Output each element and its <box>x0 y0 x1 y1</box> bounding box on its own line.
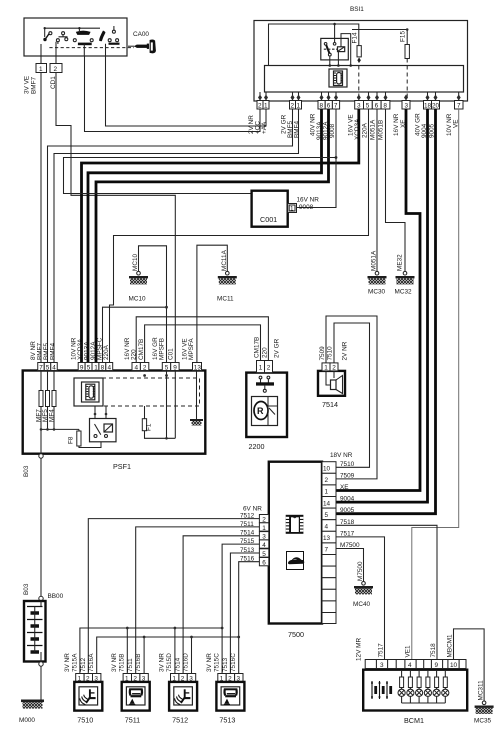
svg-text:ME32: ME32 <box>397 254 404 271</box>
connector C001 <box>252 191 320 227</box>
handbrake switch 2200 <box>246 373 287 451</box>
BCM1 internal battery symbol <box>371 681 391 699</box>
PSF1 fuse F8 <box>68 429 102 447</box>
svg-text:2: 2 <box>267 365 271 372</box>
wire MPSFB from PSF1 pin5 to ground MC10 <box>139 246 167 363</box>
svg-text:9005: 9005 <box>340 507 355 514</box>
svg-text:7510: 7510 <box>340 461 355 468</box>
svg-text:2: 2 <box>143 364 147 371</box>
wire BMF5 from BSI1 to PSF1 pin5 <box>48 109 293 363</box>
svg-text:2: 2 <box>54 66 58 73</box>
svg-text:MPSFB: MPSFB <box>159 338 166 360</box>
svg-text:F8: F8 <box>68 436 75 444</box>
wire BMF4 from BSI1 to PSF1 pin4 <box>54 109 299 363</box>
BSI1 pin 2 (BMF5) pin 1 (BMF4) <box>290 101 302 110</box>
PSF1 fuse MF5 <box>42 391 50 423</box>
PSF1 fuse box <box>23 371 206 472</box>
PSF1 pin 13 <box>193 363 202 372</box>
svg-text:6: 6 <box>375 103 379 110</box>
svg-text:BCM1: BCM1 <box>404 716 424 725</box>
wire M051B from BSI1 to ground MC32 <box>386 109 406 272</box>
wire 7509 from 7514 pin1 to 7500 pin2 <box>326 316 377 479</box>
ignition switch CA00 <box>24 18 149 56</box>
svg-text:8: 8 <box>320 103 324 110</box>
svg-text:3: 3 <box>262 534 266 541</box>
svg-text:7515A: 7515A <box>71 653 78 672</box>
svg-text:1: 1 <box>259 365 263 372</box>
node B03 on PSF1 bottom <box>23 454 43 477</box>
svg-text:5: 5 <box>262 551 266 558</box>
wire 7511 from 7500 pin1 to 7511 pin2 <box>136 527 260 674</box>
svg-text:9008: 9008 <box>299 204 314 211</box>
PSF1 relay <box>90 406 117 442</box>
svg-text:12V MR: 12V MR <box>356 638 363 661</box>
svg-text:7: 7 <box>39 364 43 371</box>
BCM1 pin strip <box>365 660 466 670</box>
svg-text:7512: 7512 <box>80 657 87 672</box>
BSI1 pins 8 6 7 <box>318 101 340 110</box>
svg-text:R: R <box>257 406 264 416</box>
PSF1 labels 16V NR 220 CM17B <box>124 337 145 360</box>
svg-text:2V NR: 2V NR <box>342 341 349 360</box>
svg-text:1: 1 <box>94 364 98 371</box>
svg-text:20: 20 <box>432 103 440 110</box>
label 3V VE BMF7 <box>24 76 38 94</box>
svg-text:7512: 7512 <box>172 716 188 725</box>
svg-text:9: 9 <box>435 662 439 669</box>
ground MC30 <box>368 250 387 295</box>
svg-text:BMF7: BMF7 <box>31 77 38 94</box>
BCM1 internal fuses and lamps <box>398 671 449 703</box>
svg-text:M7500: M7500 <box>340 542 360 549</box>
svg-text:CA00: CA00 <box>133 31 149 38</box>
svg-text:9: 9 <box>173 364 177 371</box>
PSF1 internal bus under MF fuses <box>40 371 79 456</box>
svg-text:16V NR: 16V NR <box>393 113 400 136</box>
svg-text:MC30: MC30 <box>368 289 385 296</box>
wire +CC from BSI1 pin2 to CA00 <box>85 56 261 132</box>
wire 7515 from 7500 pin4 to door units pin1 bus <box>80 544 260 673</box>
wire 9005 thick from BSI1 to 7500 pin5 <box>336 109 436 514</box>
wire XCD3A thick from BSI1 to PSF1 pin9 <box>82 109 359 363</box>
svg-text:MC35: MC35 <box>474 718 491 725</box>
wire CM17B from PSF1 pin2 to 2200 pin1 <box>145 325 261 363</box>
7513 wire labels 3V NR 7515C 7513 7516C <box>206 653 237 672</box>
svg-text:18V NR: 18V NR <box>330 452 353 459</box>
BSI1 pin 3 (XE) <box>402 101 410 110</box>
BSI1 pin stubs and junction dots <box>258 92 461 101</box>
wire XE thick from BSI1 to 7500 pin1 <box>336 109 420 491</box>
svg-text:18: 18 <box>424 103 432 110</box>
door lock motor 7512 <box>169 674 197 725</box>
CA00 internal contacts <box>41 26 134 64</box>
svg-text:XE: XE <box>340 484 349 491</box>
PSF1 internal ground <box>190 371 203 426</box>
svg-text:10: 10 <box>323 466 331 473</box>
BCM1 wire labels 7517 VE1 7518 MBCM1 <box>378 634 454 658</box>
wire 7517 from 7500 pin13 to BCM1 pin3 <box>336 537 385 660</box>
relay inside BSI1 <box>321 34 351 66</box>
svg-text:C001: C001 <box>260 215 277 224</box>
wire 7516 from 7500 pin6 to door units pin3 bus <box>97 562 260 674</box>
buzzer 7514 <box>318 371 345 409</box>
ground MC35 <box>474 680 494 725</box>
wire battery to ground M000 <box>40 666 42 699</box>
BSI1 pin 7 (VE) <box>455 101 464 110</box>
svg-text:CM17B: CM17B <box>138 339 145 360</box>
svg-text:4: 4 <box>52 364 56 371</box>
PSF1 pins 5 9 <box>162 363 179 372</box>
svg-text:13: 13 <box>323 535 331 542</box>
svg-text:4: 4 <box>408 662 412 669</box>
svg-text:2: 2 <box>332 365 336 372</box>
svg-text:MC11: MC11 <box>217 296 234 303</box>
svg-text:7514: 7514 <box>175 657 182 672</box>
svg-text:7516A: 7516A <box>88 653 95 672</box>
svg-text:9008: 9008 <box>329 123 336 138</box>
wire MPSFC from PSF1 pin8 joining MPSFB <box>103 306 168 363</box>
svg-text:7515D: 7515D <box>166 653 173 672</box>
BSI1 pin 2 (+CC) and pin 1 (+AA) <box>257 101 269 110</box>
dashed feed F15 to pin XE <box>406 59 408 101</box>
svg-text:3: 3 <box>405 103 409 110</box>
svg-text:F1: F1 <box>146 423 153 431</box>
svg-text:6V NR: 6V NR <box>243 506 262 513</box>
svg-text:220A: 220A <box>103 344 110 360</box>
2200 internal switch and R indicator <box>252 376 278 425</box>
svg-text:7516B: 7516B <box>135 654 142 672</box>
svg-text:5: 5 <box>366 103 370 110</box>
svg-text:MC311: MC311 <box>478 680 485 701</box>
svg-text:1: 1 <box>325 489 329 496</box>
battery BB00 <box>24 593 64 662</box>
svg-text:13: 13 <box>194 364 202 371</box>
svg-text:3V NR: 3V NR <box>206 653 213 672</box>
svg-text:3V NR: 3V NR <box>159 653 166 672</box>
wire 9012A thick from BSI1 to PSF1 pin1 <box>96 109 329 363</box>
svg-text:2: 2 <box>258 103 262 110</box>
PSF1 inner dashed connector box <box>74 378 200 406</box>
node below battery <box>39 662 43 666</box>
instrument cluster 7500 <box>269 462 322 639</box>
PSF1 labels 16V VE MPSFA <box>182 338 196 360</box>
svg-text:220: 220 <box>131 349 138 360</box>
BSI1 top rail wire <box>269 23 359 67</box>
svg-text:PSF1: PSF1 <box>113 462 131 471</box>
svg-text:3V NR: 3V NR <box>64 653 71 672</box>
svg-text:4: 4 <box>262 542 266 549</box>
wire branch to C001 left <box>64 156 338 193</box>
svg-text:7: 7 <box>325 547 329 554</box>
2200 labels CM17B 220 2V GR <box>254 337 281 358</box>
svg-text:F14: F14 <box>352 32 359 43</box>
BSI1 pins 3 5 6 8 <box>355 101 390 110</box>
svg-text:16V NR: 16V NR <box>297 197 320 204</box>
wire MBCM1 from BCM1 pin10 to ground MC35 <box>454 629 485 701</box>
wire 220 from PSF1 pin4 to 2200 pin2 <box>136 317 268 363</box>
7512 wire labels 3V NR 7515D 7514 7516D <box>159 653 190 672</box>
svg-text:M051A: M051A <box>370 119 377 140</box>
svg-text:7513: 7513 <box>222 657 229 672</box>
wire 9013A thick from BSI1 to PSF1 pin5 <box>88 109 322 363</box>
svg-text:2200: 2200 <box>249 442 265 451</box>
fuse F14 <box>352 32 362 63</box>
svg-text:7516D: 7516D <box>183 653 190 672</box>
svg-text:BB00: BB00 <box>48 593 64 600</box>
svg-text:2: 2 <box>262 517 266 524</box>
svg-text:7509: 7509 <box>319 346 326 361</box>
PSF1 labels 16V GR MPSFB C01 <box>152 337 175 360</box>
PSF1 fuse F1 <box>142 371 175 440</box>
wire M7500 from 7500 pin7 to ground MC40 <box>336 549 364 582</box>
BSI1 wire labels 40V NR 9013A 9012A 9008 <box>310 113 337 140</box>
7500 left pins 2 1 3 4 5 6 <box>259 515 268 567</box>
wire 9004 thick from BSI1 to 7500 pin14 <box>336 109 428 502</box>
svg-text:F15: F15 <box>400 31 407 42</box>
svg-text:10: 10 <box>450 662 458 669</box>
wire VE from BSI1 pin7 to BCM1 pin4 (VE1) <box>412 109 459 660</box>
wire BMF7 from CA00 pin1 to PSF1 pin7 <box>40 73 42 363</box>
svg-text:5: 5 <box>325 512 329 519</box>
svg-text:M7500: M7500 <box>357 561 364 581</box>
svg-text:7509: 7509 <box>340 472 355 479</box>
7514 labels 7509 7510 2V NR <box>319 341 349 360</box>
svg-text:BSI1: BSI1 <box>350 6 364 13</box>
svg-text:MC40: MC40 <box>353 601 370 608</box>
svg-text:6: 6 <box>262 560 266 567</box>
svg-text:BMF4: BMF4 <box>294 121 301 138</box>
svg-text:2V GR: 2V GR <box>274 338 281 358</box>
PSF1 labels 8V NR BMF7 BMF5 BMF4 <box>30 341 57 360</box>
svg-text:7517: 7517 <box>378 643 385 658</box>
7514 pins 1 2 <box>322 363 338 372</box>
svg-text:4: 4 <box>325 524 329 531</box>
svg-text:7510: 7510 <box>327 346 334 361</box>
svg-text:B03: B03 <box>23 583 30 595</box>
PSF1 fuse MF4 <box>49 391 57 423</box>
svg-text:M051B: M051B <box>378 120 385 140</box>
PSF1 labels 10V NR XCD3A 9013A 9012A MPSFC 220A <box>71 337 111 360</box>
svg-text:14: 14 <box>323 500 331 507</box>
dashed feed F14 to pin XCD3A <box>358 59 360 101</box>
BSI1 wire labels 40V GR 9004 9005 <box>415 113 436 138</box>
svg-text:MBCM1: MBCM1 <box>447 634 454 658</box>
PSF1 pins 7 5 4 <box>38 363 58 372</box>
wire C01 from CA00 pin2 to PSF1 pin9 <box>56 73 175 363</box>
svg-text:6: 6 <box>327 103 331 110</box>
svg-text:8: 8 <box>101 364 105 371</box>
BSI1 wire labels 16V NR XE <box>393 113 407 136</box>
svg-text:C01: C01 <box>168 348 175 360</box>
svg-text:7515C: 7515C <box>213 653 220 672</box>
7510 wire labels 3V NR 7515A 7512 7516A <box>64 653 95 672</box>
svg-text:7500: 7500 <box>288 630 304 639</box>
svg-text:1: 1 <box>297 103 301 110</box>
fuse box BCM1 <box>363 670 467 725</box>
key symbol at CA00 <box>128 39 156 53</box>
svg-text:7510: 7510 <box>77 716 93 725</box>
svg-text:MC32: MC32 <box>395 289 412 296</box>
svg-text:CM17B: CM17B <box>254 337 261 358</box>
7500 car icon <box>287 552 305 570</box>
PSF1 pins 4 2 <box>132 363 149 372</box>
door lock motor 7510 <box>74 674 102 725</box>
svg-text:7: 7 <box>334 103 338 110</box>
ground MC40 <box>353 561 373 608</box>
wire +AA from BSI1 pin1 to CA00 <box>106 56 267 126</box>
svg-text:7517: 7517 <box>340 530 355 537</box>
wire 7513 from 7500 pin5 to 7513 pin2 <box>230 553 259 674</box>
svg-text:3: 3 <box>380 662 384 669</box>
ground MC32 <box>395 254 415 296</box>
svg-text:220A: 220A <box>362 122 369 138</box>
svg-text:5: 5 <box>165 364 169 371</box>
svg-text:MC11A: MC11A <box>221 249 228 271</box>
BSI1 wire labels 2V GR BMF5 BMF4 <box>281 114 301 138</box>
BSI1 wire labels 2V NR +CC +AA <box>248 115 268 134</box>
svg-text:7514: 7514 <box>322 400 338 409</box>
svg-text:7511: 7511 <box>125 716 140 725</box>
wire 7518 from 7500 pin4 to BCM1 pin9 <box>336 525 437 659</box>
wire 7512 from 7500 pin2 to 7510 pin2 <box>88 519 259 674</box>
svg-text:1: 1 <box>264 103 268 110</box>
svg-text:8: 8 <box>383 103 387 110</box>
ground MC11 <box>217 249 237 302</box>
svg-text:9004: 9004 <box>340 496 355 503</box>
svg-text:1: 1 <box>39 66 43 73</box>
svg-text:1: 1 <box>262 525 266 532</box>
wire MPSFA from PSF1 pin13 to ground MC11 <box>197 245 227 362</box>
svg-text:1: 1 <box>324 365 328 372</box>
svg-text:5: 5 <box>46 364 50 371</box>
7500 right connector ladder <box>322 462 336 624</box>
svg-text:7: 7 <box>457 103 461 110</box>
svg-text:9: 9 <box>80 364 84 371</box>
svg-text:VE1: VE1 <box>405 645 412 658</box>
2200 pins 1 2 <box>257 361 273 373</box>
svg-text:7511: 7511 <box>127 658 134 672</box>
BSI1 body control unit box <box>254 6 468 101</box>
ground M000 <box>19 700 44 725</box>
svg-text:3V NR: 3V NR <box>111 653 118 672</box>
wire B03 from PSF1 to battery BB00 <box>23 458 43 601</box>
ground MC10 <box>129 254 149 303</box>
7500 right wire name labels <box>330 452 360 549</box>
BSI1 pins 18 20 <box>424 101 440 110</box>
PSF1 pins 9 5 1 8 4 <box>78 363 113 372</box>
BSI1 wire labels 10V NR VE <box>446 113 460 136</box>
7500 left wire name labels <box>240 506 262 563</box>
svg-text:3V VE: 3V VE <box>24 76 31 94</box>
svg-text:4: 4 <box>135 364 139 371</box>
7500 IC chip icon <box>286 515 304 534</box>
svg-text:7513: 7513 <box>219 716 235 725</box>
svg-text:+AA: +AA <box>261 121 268 134</box>
wire 7514 from 7500 pin3 to 7512 pin2 <box>183 536 259 674</box>
PSF1 inner shunt symbol <box>82 382 100 402</box>
svg-text:MC10: MC10 <box>132 254 139 271</box>
svg-text:3: 3 <box>357 103 361 110</box>
svg-text:7518: 7518 <box>430 643 437 658</box>
svg-text:B03: B03 <box>23 465 30 477</box>
wire 220A from BSI1 to PSF1 pin4 <box>110 109 369 363</box>
svg-text:7518: 7518 <box>340 519 355 526</box>
wire 9008 from BSI1 pin7 to C001 <box>297 109 337 208</box>
svg-text:BMF4: BMF4 <box>50 343 57 360</box>
PSF1 fuse MF7 <box>36 391 44 423</box>
svg-text:7515B: 7515B <box>119 654 126 672</box>
svg-text:MC10: MC10 <box>129 296 146 303</box>
wire M051A from BSI1 to ground MC30 <box>376 109 378 272</box>
door switch 7513 <box>216 674 244 725</box>
door switch 7511 <box>122 674 150 725</box>
svg-text:220: 220 <box>262 347 269 358</box>
svg-text:2: 2 <box>325 477 329 484</box>
7514 speaker symbol <box>326 371 343 394</box>
svg-text:M000: M000 <box>19 717 35 724</box>
connector C01 pins 1 2 under CA00 <box>36 64 62 74</box>
svg-text:7516C: 7516C <box>230 653 237 672</box>
svg-text:4: 4 <box>108 364 112 371</box>
svg-text:MPSFA: MPSFA <box>188 338 195 360</box>
shunt connector symbol inside BSI1 <box>329 69 347 87</box>
svg-text:1: 1 <box>290 206 294 213</box>
BSI1 wire labels 16V VE XCD3A 220A M051A M051B <box>348 114 385 140</box>
wire 7510 from 7514 pin2 to 7500 pin10 <box>334 323 370 467</box>
svg-text:2: 2 <box>291 103 295 110</box>
fuse F15 <box>352 28 409 58</box>
svg-text:5: 5 <box>87 364 91 371</box>
7511 wire labels 3V NR 7515B 7511 7516B <box>111 653 142 672</box>
svg-text:M051A: M051A <box>371 250 378 271</box>
